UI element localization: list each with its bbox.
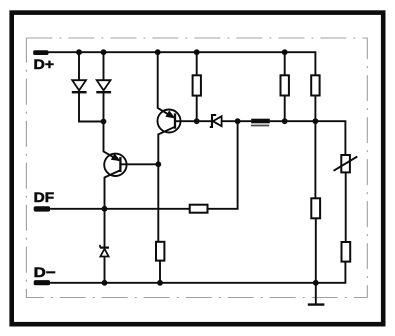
svg-text:D−: D−: [34, 264, 56, 280]
wire R7 to riser: [208, 121, 238, 209]
wire diode D2 to node A: [103, 92, 105, 121]
wire Q1 collector down: [158, 127, 175, 242]
resistor R6: [156, 242, 164, 261]
wire resistor R2 top lead: [284, 52, 286, 75]
node top rail / D2: [101, 49, 107, 55]
resistor R4: [311, 198, 320, 218]
wire zener Z1 to node B: [222, 120, 252, 122]
resistor R3: [311, 75, 319, 95]
wire DF line: [50, 208, 190, 210]
wire Q2 emitter: [104, 122, 120, 161]
transistor Q2: [104, 154, 126, 176]
wire resistor R4 to D- rail: [315, 218, 317, 282]
wire diode D1 to node A: [79, 92, 104, 121]
terminal D+: [33, 50, 48, 55]
wire resistor R3 bottom lead: [314, 96, 316, 122]
resistor R5: [342, 242, 351, 262]
wire D+ top rail with corner into R3: [48, 52, 315, 75]
node DF / Q2 collector: [102, 206, 108, 212]
node D- / D3: [102, 280, 108, 286]
node base rail / R1: [194, 118, 200, 124]
wire Q1 emitter: [158, 52, 174, 117]
wire resistor R1 bottom lead: [196, 96, 198, 122]
node top rail / R2: [282, 49, 288, 55]
zener diode Z1: [210, 115, 222, 127]
resistor R2: [281, 75, 289, 95]
node top rail / D1: [76, 49, 82, 55]
node A diodes join: [101, 119, 107, 125]
svg-text:D+: D+: [34, 56, 55, 72]
wire D- bottom rail with corner up to R5: [50, 262, 345, 283]
ground: [308, 283, 325, 305]
node base rail / R2: [282, 118, 288, 124]
diode D1: [72, 80, 87, 92]
wire diode D2 column top: [103, 52, 105, 80]
wire Q2 collector down: [105, 170, 121, 209]
wire column x316 rail to resistor R4: [314, 121, 316, 198]
wire Q2 base to node C: [120, 163, 158, 165]
resistor R1: [193, 75, 201, 95]
terminal D-: [34, 280, 50, 285]
node top rail / Q1 emitter: [155, 49, 161, 55]
inductor L1: [251, 119, 270, 126]
wire resistor R5 to varistor: [345, 172, 347, 242]
wire base rail right with corner down to varistor RV: [270, 121, 346, 155]
node top rail / R1: [194, 49, 200, 55]
transistor Q1: [158, 110, 181, 133]
wire resistor R1 top lead: [196, 52, 198, 75]
node D- / ground R4: [313, 280, 319, 286]
node C Q2 base / Q1 collector: [155, 161, 161, 167]
node base rail / R3 R4: [313, 118, 319, 124]
regulator package boundary (chain line): [26, 38, 367, 298]
node base rail / DF riser: [235, 118, 241, 124]
wire Q1 base to rail: [175, 120, 212, 122]
varistor RV: [334, 155, 358, 172]
wire resistor R6 bottom lead: [159, 261, 161, 283]
diode D2: [96, 80, 111, 92]
resistor R7: [190, 205, 208, 213]
wire resistor R2 bottom lead: [284, 96, 286, 122]
node D- / R6: [157, 280, 163, 286]
wire DF node down to diode D3: [104, 209, 106, 248]
wire diode D3 to D- line: [104, 257, 106, 283]
terminal DF: [34, 206, 50, 211]
svg-text:DF: DF: [34, 189, 55, 205]
diode D3: [100, 245, 109, 257]
wire diode D1 column top: [78, 52, 80, 80]
